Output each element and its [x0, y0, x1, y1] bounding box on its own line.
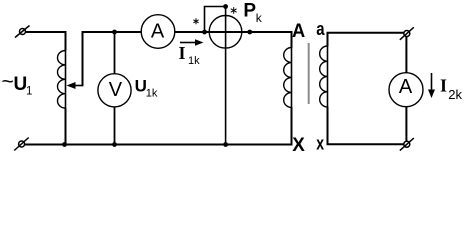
wire ammeter A2 down to T4	[405, 107, 407, 142]
label U1k	[135, 76, 158, 99]
label Pk	[243, 0, 262, 25]
wattmeter P circle	[209, 16, 242, 49]
node voltmeter bottom junction	[112, 142, 117, 147]
wattmeter vertical (voltage) lead down to bottom rail	[225, 7, 227, 146]
terminal T1 top-left	[15, 26, 30, 38]
wire voltmeter down lead	[114, 107, 116, 146]
polarity asterisk left	[193, 18, 198, 24]
node wattmeter bottom junction	[223, 142, 228, 147]
svg-text:I: I	[179, 43, 186, 63]
ammeter A1	[141, 15, 175, 49]
arrow I1k	[180, 39, 204, 46]
wire down to transformer primary	[291, 31, 293, 48]
node voltmeter top junction	[112, 30, 117, 35]
arrow I2k	[428, 73, 435, 98]
wire secondary bottom to terminal T4	[328, 107, 404, 145]
label I1k	[179, 43, 201, 67]
voltmeter U1k	[98, 74, 131, 107]
svg-text:~: ~	[2, 71, 14, 94]
svg-text:A: A	[151, 21, 165, 43]
svg-text:P: P	[243, 0, 256, 21]
transformer secondary winding	[320, 46, 328, 107]
svg-text:1: 1	[26, 85, 32, 97]
wire T1 to autotransformer top	[26, 31, 67, 33]
label I2k	[440, 75, 463, 101]
svg-text:2k: 2k	[448, 87, 462, 102]
svg-text:1k: 1k	[188, 55, 200, 67]
svg-text:x: x	[316, 133, 324, 153]
transformer primary winding	[284, 48, 292, 108]
wire coil bottom to bottom rail	[65, 108, 67, 145]
wire ammeter to transformer (through wattmeter)	[175, 31, 293, 33]
wire secondary top to terminal T3	[328, 33, 405, 47]
autotransformer coil	[58, 51, 66, 109]
wire T3 down to ammeter A2	[405, 37, 407, 74]
transformer core	[308, 43, 310, 104]
polarity asterisk top	[231, 7, 237, 14]
ammeter A2	[389, 73, 423, 107]
label ~U1	[2, 71, 33, 98]
svg-text:V: V	[109, 79, 123, 101]
terminal T4 bottom-right	[400, 138, 414, 151]
bottom rail	[25, 144, 293, 146]
svg-text:a: a	[316, 19, 325, 39]
svg-text:A: A	[399, 76, 413, 98]
wire primary bottom to rail	[291, 107, 293, 146]
wire voltmeter up lead	[114, 32, 116, 75]
node bracket top junction	[223, 4, 228, 9]
node bracket-wire junction	[202, 30, 207, 35]
autotransformer wiper arrow	[67, 31, 83, 89]
node coil bottom junction	[62, 142, 67, 147]
wire top rail riser to ammeter	[82, 31, 142, 33]
terminal T3 top-right	[400, 27, 414, 40]
svg-text:A: A	[292, 21, 305, 42]
svg-text:1k: 1k	[146, 88, 158, 100]
svg-text:I: I	[440, 75, 447, 95]
wire down into coil	[65, 31, 67, 51]
wattmeter bracket (voltage coil connection)	[205, 7, 226, 33]
node wattmeter right terminal	[247, 30, 252, 35]
terminal T2 bottom-left	[14, 138, 29, 151]
svg-text:k: k	[256, 11, 263, 25]
svg-text:X: X	[292, 135, 305, 156]
